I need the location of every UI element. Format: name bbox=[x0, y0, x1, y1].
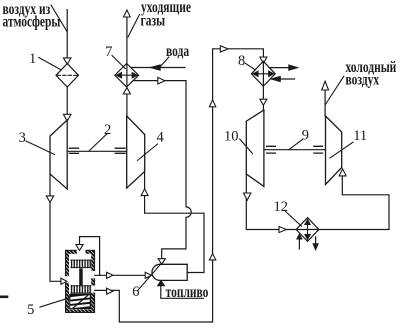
wire water inlet to HX7 bbox=[131, 67, 185, 69]
arrow into turbine 4 bbox=[141, 189, 148, 196]
filter 1 dashed chord bbox=[57, 74, 78, 76]
leader line air inlet text bbox=[51, 5, 67, 32]
arrow cold air out bbox=[322, 81, 329, 90]
regenerator right port notches bbox=[91, 271, 95, 278]
turbine 4 body bbox=[127, 116, 145, 188]
leader label 3 bbox=[26, 141, 55, 155]
svg-text:3: 3 bbox=[19, 130, 26, 146]
wire water outlet / steam line to combustion chamber bbox=[133, 81, 191, 259]
regenerator top port gap bbox=[77, 250, 86, 255]
arrow into compressor 3 bbox=[63, 114, 71, 121]
arrow riser top horizontal bbox=[220, 46, 228, 52]
combustion chamber 6 bbox=[152, 264, 187, 280]
leader label 4 bbox=[138, 144, 158, 160]
regenerator spring section bbox=[69, 294, 91, 309]
svg-text:4: 4 bbox=[157, 129, 165, 145]
svg-text:топливо: топливо bbox=[166, 284, 209, 301]
heat exchanger 12 diamond bbox=[296, 218, 319, 242]
arrow port2 bbox=[107, 288, 113, 294]
wire air tee up to regenerator top bbox=[80, 237, 100, 276]
svg-text:10: 10 bbox=[224, 129, 239, 145]
arrow on water outlet bbox=[158, 77, 165, 84]
coupling marks shaft 9 right bbox=[314, 146, 323, 153]
regenerator tube band upper bbox=[71, 260, 91, 267]
leader label 7 bbox=[112, 56, 125, 69]
coupling marks shaft 2 right bbox=[115, 148, 125, 153]
arrow HX8 to compressor 10 bbox=[260, 99, 267, 105]
arrow into turbine 11 bbox=[339, 169, 346, 176]
svg-text:7: 7 bbox=[105, 44, 112, 60]
wire compressor 3 outlet to regenerator bbox=[50, 174, 61, 281]
svg-text:11: 11 bbox=[353, 128, 367, 144]
scan artifact dash left edge bbox=[0, 295, 7, 298]
svg-text:6: 6 bbox=[132, 284, 139, 300]
leader label 1 bbox=[39, 58, 62, 71]
heat exchanger 8 diamond bbox=[251, 61, 275, 86]
filled arrow fuel into combustion chamber bbox=[157, 280, 164, 286]
HX7 inner double arrow bbox=[117, 73, 138, 78]
svg-text:5: 5 bbox=[27, 302, 34, 318]
regenerator left port notch bbox=[65, 276, 69, 282]
wire compressor 10 outlet to HX12 line bbox=[246, 174, 389, 230]
wire HX8 water outlet bbox=[269, 67, 289, 69]
wire turbine 11 outlet cold air bbox=[324, 90, 326, 116]
wire exhaust line through HX7 bbox=[126, 17, 128, 116]
wire regenerator air out to combustion chamber bbox=[95, 274, 152, 276]
svg-text:12: 12 bbox=[274, 199, 289, 215]
svg-text:1: 1 bbox=[29, 51, 36, 67]
leader line cold air text bbox=[325, 76, 344, 105]
filled arrow HX8 water in bbox=[271, 76, 280, 81]
leader label 8 bbox=[245, 63, 255, 70]
leader label 2 bbox=[89, 134, 107, 151]
arrow exhaust outlet top bbox=[124, 10, 131, 17]
arrow steam into combustion chamber top bbox=[158, 259, 165, 265]
compressor 10 body bbox=[246, 110, 264, 187]
shaft 2 bbox=[67, 150, 127, 152]
leader line water text bbox=[159, 57, 169, 68]
shaft 9 bbox=[264, 149, 326, 151]
leader label 9 bbox=[289, 140, 303, 150]
filled arrow HX12 coolant in bbox=[297, 234, 302, 239]
svg-text:8: 8 bbox=[238, 53, 245, 69]
arrow into HX7 from turbine 4 bbox=[123, 88, 130, 94]
arrow air line 1 bbox=[107, 272, 113, 278]
wire regenerator port2 to long riser bbox=[95, 49, 264, 322]
svg-text:вода: вода bbox=[166, 43, 189, 60]
leader label 10 bbox=[240, 139, 253, 154]
leader label 12 bbox=[286, 212, 302, 227]
wire HX12 coolant out stub bbox=[315, 237, 317, 244]
svg-text:воздух: воздух bbox=[346, 72, 380, 89]
wire through HX8 vertical bbox=[262, 63, 264, 110]
arrow into regenerator left port bbox=[61, 278, 67, 284]
regenerator tube band lower bbox=[71, 286, 91, 293]
arrow into regenerator top bbox=[76, 245, 83, 251]
compressor 3 body bbox=[50, 120, 67, 189]
wire air inlet to filter bbox=[66, 10, 68, 59]
leader label 11 bbox=[330, 142, 353, 158]
wire HX12 coolant in stub bbox=[298, 239, 300, 249]
svg-text:2: 2 bbox=[104, 122, 111, 138]
leader label 5 bbox=[40, 298, 70, 307]
wire filter to compressor 3 bbox=[66, 87, 68, 115]
filled arrow water into HX7 bbox=[150, 65, 160, 71]
HX12 inner double arrow bbox=[305, 220, 310, 240]
wire HX8 water inlet bbox=[272, 78, 295, 80]
arrow compressor 10 outlet bbox=[244, 193, 251, 200]
coupling marks shaft 2 left bbox=[69, 148, 78, 153]
heat exchanger 7 diamond bbox=[115, 64, 139, 88]
arrow on compressor 3 outlet bbox=[46, 196, 53, 202]
filled arrow HX12 coolant out bbox=[313, 244, 318, 250]
leader line exhaust text bbox=[128, 15, 140, 38]
wire combustion chamber to turbine 4 bbox=[145, 172, 204, 273]
coupling marks shaft 9 left bbox=[267, 146, 276, 153]
filled arrow HX8 water out bbox=[289, 65, 298, 70]
arrow riser upper bbox=[209, 100, 215, 107]
arrow into HX8 top bbox=[260, 57, 267, 63]
arrow into HX12 bbox=[279, 226, 286, 232]
regenerator middle divider bbox=[79, 268, 83, 285]
svg-text:газы: газы bbox=[141, 13, 166, 30]
filter 1 diamond bbox=[56, 64, 79, 87]
svg-text:9: 9 bbox=[302, 128, 309, 144]
HX8 inner double arrow bbox=[253, 71, 274, 76]
regenerator 5 vessel walls bbox=[66, 250, 95, 312]
wire fuel line bbox=[161, 286, 204, 299]
turbine 11 body bbox=[326, 116, 342, 185]
svg-text:атмосферы: атмосферы bbox=[3, 14, 61, 31]
arrow air line 2 bbox=[145, 272, 151, 278]
arrow riser lower bbox=[209, 254, 215, 260]
leader label 6 bbox=[138, 265, 160, 291]
arrow into filter 1 bbox=[63, 58, 71, 64]
